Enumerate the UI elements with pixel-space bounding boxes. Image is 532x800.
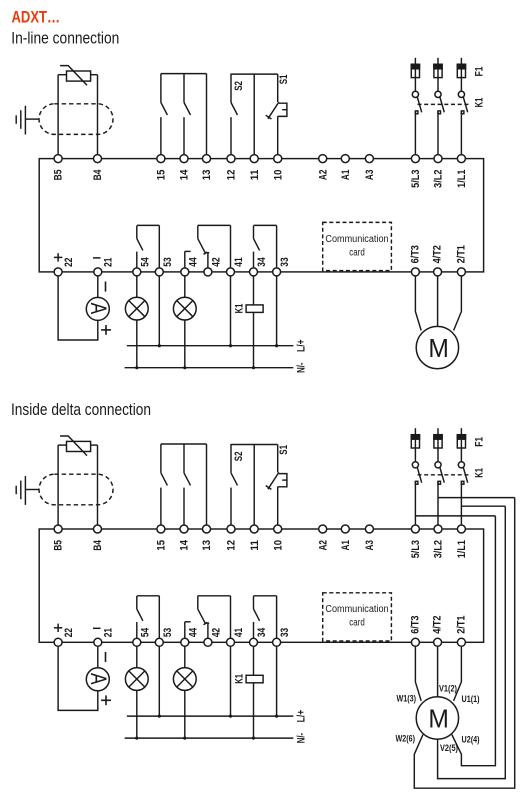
wire input 13 [206,444,208,529]
terminal A1 [341,525,349,533]
svg-text:F1: F1 [473,67,485,77]
fuse F1 pole 3 [460,58,462,65]
svg-text:B4: B4 [92,539,104,550]
svg-text:34: 34 [256,257,268,267]
svg-text:L/+: L/+ [296,710,308,723]
terminal 42 [204,638,212,646]
svg-text:22: 22 [63,258,75,267]
ground symbol [25,118,39,120]
svg-text:2/T1: 2/T1 [455,245,467,263]
svg-text:4/T2: 4/T2 [432,245,444,263]
terminal 13 [203,155,211,163]
wire bar 54-53 [137,595,160,597]
svg-text:13: 13 [201,540,213,551]
svg-text:2/T1: 2/T1 [455,616,467,634]
bus L/+ [127,345,293,347]
device block outline ADXT [39,159,483,272]
wire 33 to L/+ bus [276,276,278,346]
wire output 33 [276,596,278,643]
wire 6/T3 to motor W1 [415,646,421,701]
terminal 15 [157,525,165,533]
wire B5 to thermistor [57,75,59,159]
wire 4/T2 to motor [437,276,439,327]
coil K1 [246,305,263,313]
svg-text:1/L1: 1/L1 [456,170,468,188]
contact on input 14 [183,444,185,473]
svg-text:N/-: N/- [296,362,308,373]
ammeter polarity - [105,652,107,662]
fuse F1 pole 2 [437,58,439,65]
svg-text:U2(4): U2(4) [462,734,480,744]
svg-text:A3: A3 [364,170,376,181]
fuse F1 pole 2 [437,428,439,435]
contact S2 start [230,444,232,473]
wire output 53 [158,596,160,643]
contact relay output 54 [136,596,138,609]
svg-text:A2: A2 [317,540,329,551]
svg-text:F1: F1 [473,437,485,447]
ammeter A [86,668,109,691]
wire 33 to L/+ bus [276,646,278,716]
wire tap 5/L3 to U2 loop [415,515,495,517]
svg-text:M: M [428,703,449,733]
wire 44 to lamp [184,646,186,668]
fuse F1 pole 1 [414,428,416,435]
bus N/- [125,737,294,739]
wire 41 to L/+ bus [230,276,232,346]
wire output 33 [276,225,278,272]
fuse F1 pole 3 [460,428,462,435]
indicator lamp on 54 [125,668,148,691]
indicator lamp on 44 [173,668,196,691]
terminal 3/L2 [434,155,442,163]
svg-text:10: 10 [272,540,284,551]
svg-text:53: 53 [162,257,174,266]
terminal 4/T2 [434,638,442,646]
svg-text:S1: S1 [278,445,290,455]
fuse F1 pole 1 [414,58,416,65]
ammeter polarity + [101,329,111,331]
terminal 1/L1 [457,525,465,533]
wire bar 34-33 [254,224,277,226]
svg-text:K1: K1 [473,468,485,478]
svg-text:10: 10 [272,170,284,181]
svg-text:3/L2: 3/L2 [433,540,445,558]
svg-text:B4: B4 [92,169,104,180]
svg-text:11: 11 [249,170,261,181]
dashed link K1 [418,103,471,105]
svg-text:6/T3: 6/T3 [409,245,421,263]
wire lamp to N/- bus [136,690,138,738]
communication card dashed box [323,222,392,270]
svg-text:41: 41 [233,257,245,266]
polarity - of 21 [93,257,101,259]
wire 44 to lamp [184,276,186,298]
svg-text:A2: A2 [317,170,329,181]
svg-text:22: 22 [63,628,75,637]
terminal 1/L1 [457,155,465,163]
wire coil to N/- bus [253,683,255,738]
terminal 42 [204,268,212,276]
indicator lamp on 54 [125,297,148,320]
terminal 41 [227,268,235,276]
svg-text:S1: S1 [278,75,290,85]
terminal 22 [54,268,62,276]
wire motor V2 to 1/L1 loop [438,506,506,778]
bus N/- [125,367,294,369]
thermistor PTC sensor [67,441,91,451]
wire bar 15-13 [161,443,207,445]
device block outline ADXT [39,529,483,642]
wire lamp to N/- bus [184,320,186,368]
wire tap 3/L2 to W2 loop [438,497,515,499]
terminal A2 [319,525,327,533]
wire 2/T1 to motor [454,276,462,331]
svg-text:21: 21 [103,258,115,267]
svg-text:N/-: N/- [296,733,308,744]
terminal 12 [227,155,235,163]
terminal 44 [181,638,189,646]
terminal B5 [54,155,62,163]
wire 54 to lamp [136,276,138,298]
svg-text:A: A [86,303,111,315]
pushbutton S1 stop [277,74,279,102]
polarity + of 22 [54,627,62,629]
svg-text:53: 53 [162,628,174,637]
wire input 13 [206,74,208,159]
pushbutton S1 stop [277,445,279,473]
wire 53 to L/+ bus [158,646,160,716]
terminal 21 [94,638,102,646]
svg-text:4/T2: 4/T2 [432,616,444,634]
svg-text:card: card [349,247,365,258]
contact relay output 34 [253,226,255,239]
wire 6/T3 to motor [415,276,421,331]
wire input 11 [253,445,255,530]
terminal A1 [341,155,349,163]
wire 34 to coil K1 [253,646,255,675]
svg-text:A3: A3 [364,540,376,551]
wire bar 41 common [198,224,231,226]
wire 4/T2 to motor V1 [437,646,439,697]
communication card dashed box [323,593,392,641]
contact on input 15 [160,444,162,473]
wire 21 to ammeter [97,276,99,298]
wire B4 to thermistor [97,75,99,159]
svg-text:Communication: Communication [325,604,388,615]
terminal 44 [181,268,189,276]
svg-text:B5: B5 [53,540,65,551]
terminal A3 [365,155,373,163]
terminal A2 [319,155,327,163]
terminal 33 [273,268,281,276]
wire motor U2 to 5/L3 loop [452,516,496,766]
svg-text:54: 54 [139,257,151,267]
svg-text:14: 14 [179,169,191,180]
wire bar 12-10 [231,444,278,446]
ground symbol [25,489,39,491]
contact relay output 54 [136,226,138,239]
terminal 53 [155,268,163,276]
svg-text:21: 21 [103,628,115,637]
svg-text:6/T3: 6/T3 [409,616,421,634]
terminal 33 [273,638,281,646]
terminal 22 [54,638,62,646]
ammeter polarity - [105,282,107,292]
svg-text:A1: A1 [340,170,352,181]
wire bar 54-53 [137,224,160,226]
polarity - of 21 [93,627,101,629]
terminal 13 [203,525,211,533]
contactor K1 pole 3 [458,91,464,97]
svg-text:1/L1: 1/L1 [456,540,468,558]
terminal 15 [157,155,165,163]
svg-text:ADXT…: ADXT… [12,7,61,26]
wire lamp to N/- bus [184,690,186,738]
terminal 5/L3 [411,155,419,163]
contactor K1 pole 3 [458,462,464,468]
terminal 34 [250,268,258,276]
contactor K1 pole 1 [412,462,418,468]
svg-text:44: 44 [187,257,199,267]
svg-text:U1(1): U1(1) [462,694,480,704]
svg-text:5/L3: 5/L3 [410,170,422,188]
terminal 41 [227,638,235,646]
svg-text:Inside delta connection: Inside delta connection [11,400,151,419]
svg-text:S2: S2 [233,451,245,461]
svg-text:K1: K1 [233,304,245,314]
ammeter polarity + [101,699,111,701]
svg-text:15: 15 [156,540,168,551]
terminal 5/L3 [411,525,419,533]
changeover contact 41-42 [197,225,199,238]
svg-text:11: 11 [249,540,261,551]
svg-text:W1(3): W1(3) [397,694,417,704]
polarity + of 22 [54,256,62,258]
terminal 54 [133,268,141,276]
svg-text:Communication: Communication [325,234,388,245]
svg-text:B5: B5 [53,170,65,181]
thermistor PTC sensor [67,71,91,81]
svg-text:15: 15 [156,170,168,181]
contact hook 44 [184,622,186,643]
wire 2/T1 to motor U1 [454,646,462,701]
svg-text:12: 12 [226,170,238,181]
svg-text:41: 41 [233,628,245,637]
motor body dashed outline [39,104,113,135]
svg-text:V1(2): V1(2) [439,683,457,693]
svg-text:A1: A1 [340,540,352,551]
terminal 4/T2 [434,268,442,276]
terminal 21 [94,268,102,276]
wire tap 1/L1 to V2 loop [461,505,505,507]
terminal 6/T3 [411,268,419,276]
svg-text:L/+: L/+ [296,339,308,352]
coil K1 [246,675,263,683]
terminal A3 [365,525,373,533]
terminal 10 [274,525,282,533]
contact S2 start [230,74,232,103]
svg-text:42: 42 [210,257,222,266]
terminal 6/T3 [411,638,419,646]
svg-text:13: 13 [201,170,213,181]
contact on input 14 [183,74,185,103]
wire input 11 [253,74,255,159]
terminal B5 [54,525,62,533]
motor M delta [416,697,458,739]
terminal 34 [250,638,258,646]
contactor K1 pole 1 [412,91,418,97]
svg-text:34: 34 [256,627,268,637]
svg-text:K1: K1 [233,674,245,684]
svg-text:S2: S2 [233,81,245,91]
dashed link K1 [418,474,471,476]
svg-text:A: A [86,673,111,685]
svg-text:In-line connection: In-line connection [11,29,119,48]
wire motor W2 to 3/L2 loop [414,498,514,789]
wire 22 to ammeter loop [58,646,98,710]
wire B5 to thermistor [57,445,59,529]
wire bar 12-10 [231,73,278,75]
terminal 2/T1 [457,268,465,276]
wire 54 to lamp [136,646,138,668]
wire 41 to L/+ bus [230,646,232,716]
svg-text:5/L3: 5/L3 [410,540,422,558]
terminal 3/L2 [434,525,442,533]
wire B4 to thermistor [97,445,99,529]
svg-text:14: 14 [179,539,191,550]
wire coil to N/- bus [253,312,255,367]
terminal B4 [94,525,102,533]
contactor K1 pole 2 [435,91,441,97]
wire bar 15-13 [161,73,207,75]
svg-text:12: 12 [226,540,238,551]
svg-text:3/L2: 3/L2 [433,170,445,188]
svg-text:V2(5): V2(5) [440,743,458,753]
wire lamp to N/- bus [136,320,138,368]
terminal 2/T1 [457,638,465,646]
terminal 12 [227,525,235,533]
contact hook 44 [184,251,186,272]
svg-text:33: 33 [279,628,291,637]
terminal 54 [133,638,141,646]
wire bar 34-33 [254,595,277,597]
wire 53 to L/+ bus [158,276,160,346]
svg-text:W2(6): W2(6) [396,733,416,743]
wire output 53 [158,225,160,272]
terminal 14 [180,155,188,163]
contact relay output 34 [253,596,255,609]
changeover contact 41-42 [197,596,199,609]
indicator lamp on 44 [173,297,196,320]
wire 34 to coil K1 [253,276,255,305]
terminal 11 [250,525,258,533]
ammeter A [86,297,109,320]
contact on input 15 [160,74,162,103]
terminal 10 [274,155,282,163]
svg-text:33: 33 [279,257,291,266]
svg-text:card: card [349,618,365,629]
svg-text:54: 54 [139,627,151,637]
contactor K1 pole 2 [435,462,441,468]
terminal 11 [250,155,258,163]
bus L/+ [127,715,293,717]
wire 22 to ammeter loop [58,276,98,340]
svg-text:K1: K1 [473,98,485,108]
motor M [416,326,458,368]
svg-text:42: 42 [210,628,222,637]
wire 21 to ammeter [97,646,99,668]
terminal 14 [180,525,188,533]
motor body dashed outline [39,474,113,505]
wire bar 41 common [198,595,231,597]
svg-text:44: 44 [187,627,199,637]
terminal 53 [155,638,163,646]
svg-text:M: M [428,333,449,363]
terminal B4 [94,155,102,163]
